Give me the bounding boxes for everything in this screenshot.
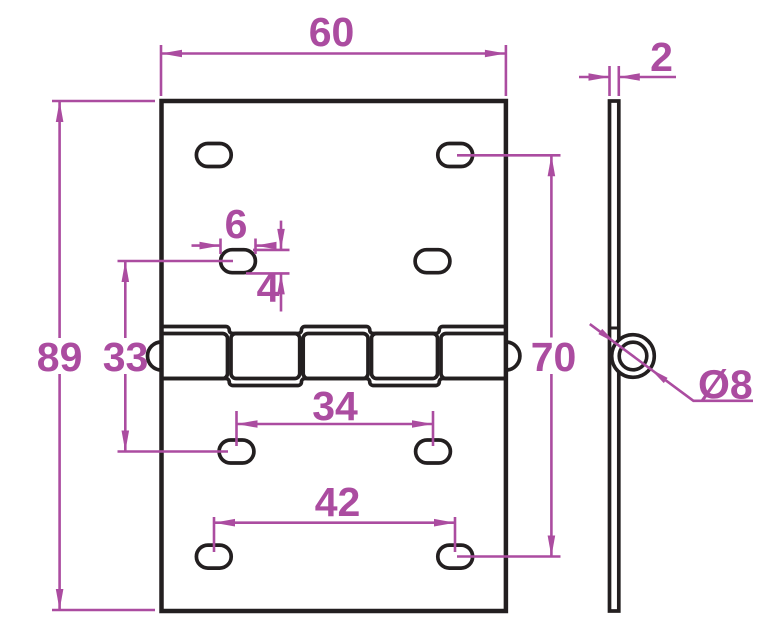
dim 34 line: [237, 423, 434, 426]
dim 34 witness lines: [235, 411, 238, 446]
svg-text:6: 6: [225, 201, 248, 247]
svg-text:89: 89: [37, 334, 83, 380]
dim 60 arrows: [161, 50, 182, 58]
dim 70 line: [550, 155, 553, 337]
dim 6 line: [192, 244, 221, 247]
svg-text:42: 42: [315, 479, 361, 525]
pin end arc left: [148, 342, 162, 370]
knuckle 2: [231, 334, 300, 379]
hole row1 right: [438, 144, 473, 167]
dim 6 witness lines: [219, 239, 222, 255]
dim 6 arrows: [200, 242, 221, 250]
knuckle 3: [303, 334, 368, 379]
svg-text:2: 2: [650, 34, 673, 80]
dim 2 witness lines: [608, 66, 611, 96]
dim 34 arrows: [237, 420, 258, 428]
dim 70 arrows: [548, 155, 556, 176]
svg-text:70: 70: [531, 334, 577, 380]
dim 70 witness lines: [457, 154, 561, 157]
knuckle 4: [372, 334, 438, 379]
side view knuckle tick: [608, 327, 621, 330]
hole row5 left: [196, 545, 231, 568]
hole row4 right: [416, 440, 451, 463]
dim 2 line: [579, 76, 610, 79]
dim 33 arrows: [122, 261, 130, 282]
svg-text:34: 34: [312, 383, 358, 429]
dimension texts: [37, 9, 753, 525]
knuckle 1: [162, 334, 228, 379]
top leaf lower edge (squiggle): [162, 327, 506, 334]
dim 33 witness lines: [118, 260, 234, 263]
slot holes 6x4: [196, 144, 472, 569]
bottom leaf upper edge (squiggle): [162, 379, 506, 386]
hole row5 right: [438, 545, 473, 568]
side view barrel circle (outer, pin Ø8): [612, 335, 655, 378]
side view leaf strip: [610, 101, 619, 611]
svg-text:33: 33: [103, 334, 149, 380]
dia8 leader arrows: [598, 329, 616, 343]
dia8 leader line: [590, 324, 753, 401]
svg-text:4: 4: [257, 265, 280, 311]
front plate outline: [162, 101, 506, 611]
dim 42 arrows: [214, 519, 235, 527]
dim 4 arrows: [277, 229, 285, 250]
dim 4 line: [280, 221, 283, 250]
dim 4 witness lines: [253, 249, 290, 252]
hole row2 right: [415, 250, 450, 273]
knuckle 5: [441, 334, 506, 379]
pin end arc right: [506, 342, 520, 370]
dim 42 line: [214, 521, 455, 524]
dim 42 witness lines: [213, 517, 216, 552]
dim 2 arrows: [589, 73, 610, 81]
dim 89 arrows: [56, 101, 64, 122]
dim 89 line: [58, 101, 61, 338]
dim 60 line: [161, 52, 506, 55]
side view pin inner circle: [619, 342, 647, 370]
hole row4 left: [219, 440, 254, 463]
hole row1 left: [196, 144, 231, 167]
arrowheads: [56, 50, 668, 610]
dim 60 witness lines: [160, 45, 163, 96]
dim 89 witness lines: [52, 100, 155, 103]
svg-text:Ø8: Ø8: [698, 362, 753, 408]
svg-text:60: 60: [309, 9, 355, 55]
hole row2 left: [221, 250, 256, 273]
dim 33 line: [124, 261, 127, 338]
